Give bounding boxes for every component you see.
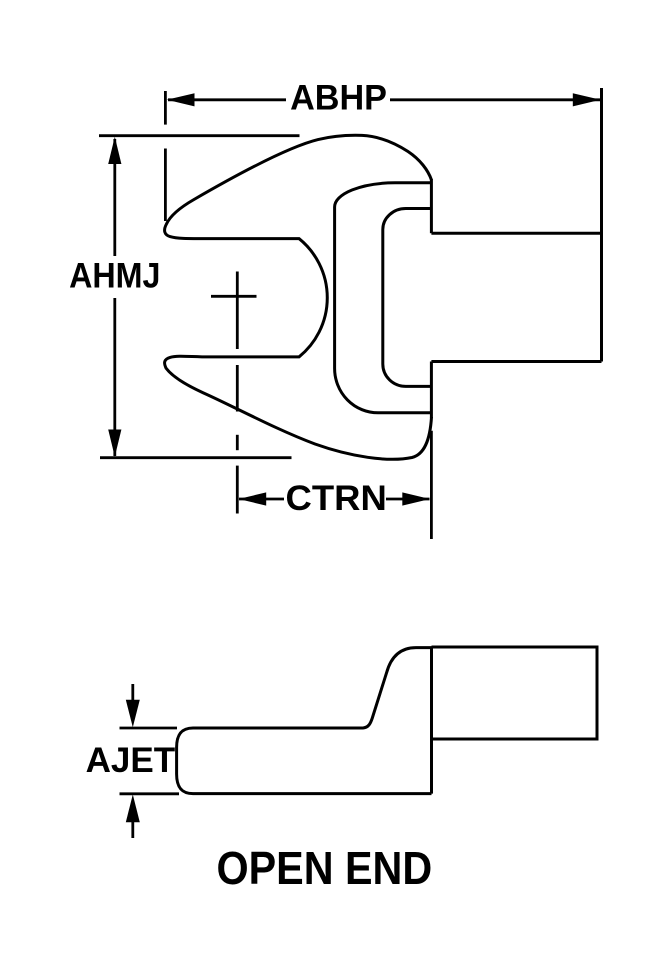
CTRN left arrowhead bbox=[239, 492, 267, 505]
centerline cross horizontal bbox=[211, 295, 257, 298]
side view: head slab with rounded nose, neck and joint bbox=[177, 648, 432, 794]
centerline vertical dash 4 / CTRN left extension bbox=[236, 466, 239, 514]
ABHP dimension line left segment bbox=[168, 98, 286, 101]
AHMJ dimension line upper segment bbox=[113, 139, 116, 256]
ABHP left extension line upper segment bbox=[164, 91, 167, 125]
CTRN right extension line bbox=[430, 431, 433, 539]
AJET lower arrow tail bbox=[131, 821, 134, 838]
svg-text:AHMJ: AHMJ bbox=[69, 257, 160, 296]
centerline vertical dash 2 bbox=[236, 365, 239, 412]
centerline vertical dash 1 bbox=[236, 272, 239, 350]
outer face contour (C shape) bbox=[335, 183, 432, 413]
head/shank joint line upper segment bbox=[430, 179, 433, 233]
inner slot contour (C shape) bbox=[383, 208, 432, 386]
AHMJ bottom extension line bbox=[100, 456, 292, 459]
side view: joint vertical line bbox=[430, 648, 433, 794]
AJET top extension line bbox=[120, 727, 178, 730]
ABHP left extension line lower segment bbox=[164, 149, 167, 222]
centerline vertical dash 3 bbox=[236, 435, 239, 450]
shank (top view) top edge bbox=[431, 232, 601, 235]
shank (top view) right break edge / ABHP extension bbox=[600, 88, 603, 362]
ABHP right arrowhead bbox=[573, 93, 601, 106]
head/shank joint line lower segment bbox=[430, 362, 433, 419]
AHMJ up arrowhead bbox=[108, 137, 121, 164]
AJET lower arrowhead (points up) bbox=[126, 795, 140, 823]
AJET bottom extension line bbox=[120, 792, 180, 795]
AHMJ down arrowhead bbox=[108, 430, 121, 457]
AJET upper arrowhead (points down) bbox=[126, 700, 140, 728]
ABHP dimension line right segment bbox=[390, 98, 600, 101]
svg-text:ABHP: ABHP bbox=[290, 79, 387, 118]
AHMJ top extension line bbox=[99, 134, 300, 137]
CTRN dimension line right segment bbox=[386, 498, 430, 501]
AHMJ dimension line lower segment bbox=[113, 298, 116, 456]
wrench head outline (top view) bbox=[165, 135, 432, 459]
shank (top view) bottom edge bbox=[431, 360, 601, 363]
side view: shank rectangle bbox=[432, 647, 598, 739]
svg-text:AJET: AJET bbox=[86, 741, 176, 780]
CTRN dimension line left segment bbox=[239, 498, 284, 501]
ABHP left arrowhead bbox=[167, 93, 195, 106]
svg-text:OPEN END: OPEN END bbox=[217, 842, 433, 894]
AJET upper arrow tail bbox=[131, 684, 134, 701]
CTRN right arrowhead bbox=[402, 492, 430, 505]
svg-text:CTRN: CTRN bbox=[286, 479, 387, 518]
